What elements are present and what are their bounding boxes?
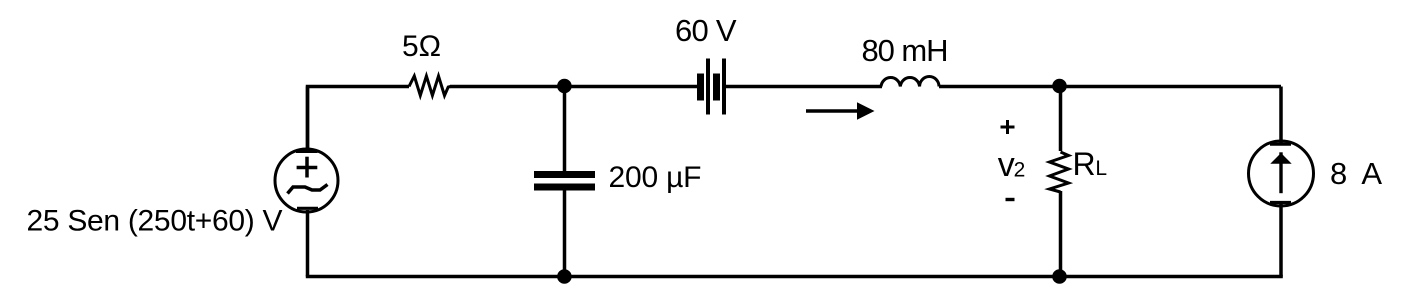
current source I1 circle bbox=[1249, 141, 1314, 206]
svg-text:2: 2 bbox=[1014, 159, 1026, 182]
wire inductor-to-right-corner bbox=[939, 85, 1281, 89]
svg-text:80 mH: 80 mH bbox=[862, 33, 949, 68]
current direction arrow bbox=[806, 102, 875, 120]
resistor R1 zigzag bbox=[409, 76, 451, 96]
wire left branch upper to source bbox=[306, 87, 310, 151]
current source arrow head bbox=[1270, 153, 1291, 164]
svg-text:60 V: 60 V bbox=[675, 13, 737, 48]
voltage source VS circle bbox=[275, 149, 338, 212]
svg-text:5Ω: 5Ω bbox=[402, 30, 441, 63]
wire top-left segment bbox=[308, 87, 410, 151]
battery V1 plate short 1 bbox=[697, 74, 704, 101]
wire resistor-to-battery bbox=[450, 85, 698, 89]
svg-text:v: v bbox=[998, 146, 1015, 184]
wire right branch upper bbox=[1279, 87, 1283, 144]
svg-text:R: R bbox=[1073, 146, 1096, 182]
capacitor C1 bottom plate bbox=[534, 184, 595, 191]
current source arrow shaft bbox=[1279, 152, 1282, 193]
wire left branch lower bbox=[306, 210, 310, 277]
svg-text:L: L bbox=[1095, 157, 1107, 180]
wire battery-to-inductor bbox=[726, 85, 882, 89]
svg-text:8 A: 8 A bbox=[1330, 156, 1382, 191]
label - polarity bbox=[1006, 198, 1015, 201]
voltage source sine tilde bbox=[288, 185, 328, 194]
wire capacitor branch lower bbox=[563, 190, 567, 277]
battery V1 plate long 1 bbox=[706, 59, 710, 115]
battery V1 plate long 2 bbox=[722, 59, 726, 115]
node dot bottom RL branch bbox=[1052, 269, 1067, 284]
voltage source terminal bar top bbox=[296, 150, 318, 153]
current source terminal bar bottom bbox=[1270, 201, 1291, 204]
voltage source plus sign horizontal bbox=[297, 166, 318, 170]
svg-text:25 Sen (250t+60) V: 25 Sen (250t+60) V bbox=[27, 205, 283, 238]
resistor RL zigzag bbox=[1050, 152, 1069, 192]
capacitor C1 top plate bbox=[534, 171, 595, 178]
wire RL branch lower bbox=[1059, 191, 1063, 277]
bottom wire bbox=[306, 275, 1283, 279]
voltage source plus sign vertical bbox=[305, 157, 309, 178]
voltage source terminal bar bottom bbox=[297, 207, 318, 210]
inductor L1 80mH bbox=[881, 76, 939, 86]
node dot top RL branch bbox=[1052, 79, 1067, 94]
svg-text:200 µF: 200 µF bbox=[609, 161, 702, 194]
node dot bottom capacitor branch bbox=[557, 269, 572, 284]
wire right branch lower bbox=[1279, 204, 1283, 277]
battery V1 plate short 2 bbox=[713, 74, 720, 101]
wire capacitor branch upper bbox=[563, 87, 567, 173]
current source terminal bar top bbox=[1270, 143, 1291, 146]
label + polarity bbox=[1001, 120, 1015, 134]
wire RL branch upper bbox=[1059, 87, 1063, 152]
node dot top capacitor branch bbox=[557, 79, 572, 94]
